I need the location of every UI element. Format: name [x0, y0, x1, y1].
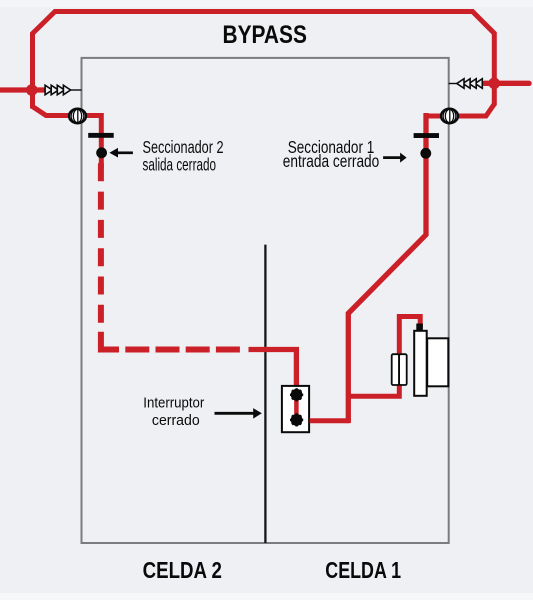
junction node right — [488, 78, 500, 90]
interruptor box — [282, 386, 309, 432]
dashed wire: horizontal run — [125, 347, 240, 353]
arrow seccionador 2 — [118, 151, 133, 154]
center divider between CELDA 2 and CELDA 1 — [264, 245, 266, 543]
interruptor contact bottom — [290, 413, 303, 426]
dashed wire: corner — [101, 332, 119, 350]
seccionador 2 bar — [88, 133, 114, 138]
fuse right cell — [399, 354, 407, 385]
dashed wire: seccionador 2 down — [98, 163, 104, 330]
wire: left junction down to coil level — [33, 107, 102, 116]
left incoming bus wire — [0, 87, 46, 92]
seccionador 1 contact dot — [420, 148, 431, 159]
fuse left cell — [392, 354, 399, 385]
wire: fuse top to transformer cap — [399, 317, 420, 357]
arrow seccionador 1 — [383, 156, 400, 159]
svg-text:CELDA 1: CELDA 1 — [325, 557, 401, 583]
junction node left — [26, 84, 38, 96]
right coil (cable seal) — [441, 109, 458, 124]
left coil (cable seal) — [69, 109, 86, 124]
wire inside interruptor — [294, 394, 299, 421]
cell enclosure box — [82, 58, 449, 543]
right outgoing bus wire — [485, 81, 530, 86]
seccionador 2 contact dot — [96, 147, 107, 158]
interruptor contact top — [290, 388, 303, 401]
transformer attachment — [427, 338, 448, 386]
wire: right junction down to coil level — [426, 104, 494, 116]
svg-text:cerrado: cerrado — [152, 413, 200, 429]
svg-text:Interruptor: Interruptor — [143, 396, 204, 412]
wire: branch to voltage transformer — [348, 384, 399, 396]
svg-text:salida cerrado: salida cerrado — [143, 155, 217, 175]
wire: seccionador 1 drop, diagonal, down to interruptor level — [348, 113, 426, 423]
bypass loop wire (top) — [33, 12, 495, 109]
svg-text:entrada cerrado: entrada cerrado — [283, 151, 380, 171]
transformer cap — [416, 324, 423, 332]
svg-text:CELDA 2: CELDA 2 — [143, 557, 222, 583]
right bushing arrows — [449, 79, 483, 89]
wire: interruptor out to the right — [310, 418, 349, 423]
wire: seccionador 2 drop — [99, 113, 104, 168]
left bushing arrows — [45, 85, 81, 95]
transformer body — [414, 331, 427, 396]
svg-text:BYPASS: BYPASS — [223, 21, 307, 49]
wire: solid into interruptor — [249, 350, 297, 386]
seccionador 1 bar — [414, 133, 439, 138]
arrow interruptor — [215, 412, 254, 415]
